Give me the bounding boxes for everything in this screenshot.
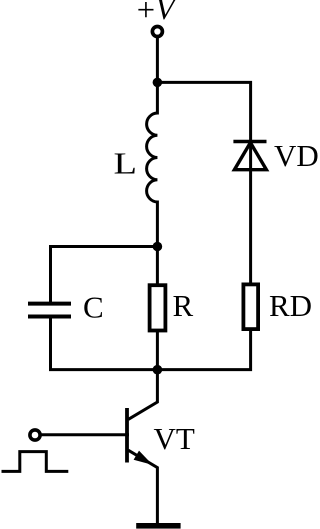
svg-text:C: C bbox=[83, 290, 104, 325]
svg-text:VD: VD bbox=[274, 138, 318, 173]
svg-text:VT: VT bbox=[154, 421, 195, 456]
svg-text:+: + bbox=[137, 0, 155, 29]
svg-text:L: L bbox=[114, 146, 138, 181]
svg-text:V: V bbox=[156, 0, 178, 26]
svg-text:RD: RD bbox=[269, 288, 312, 323]
svg-text:R: R bbox=[173, 288, 194, 323]
